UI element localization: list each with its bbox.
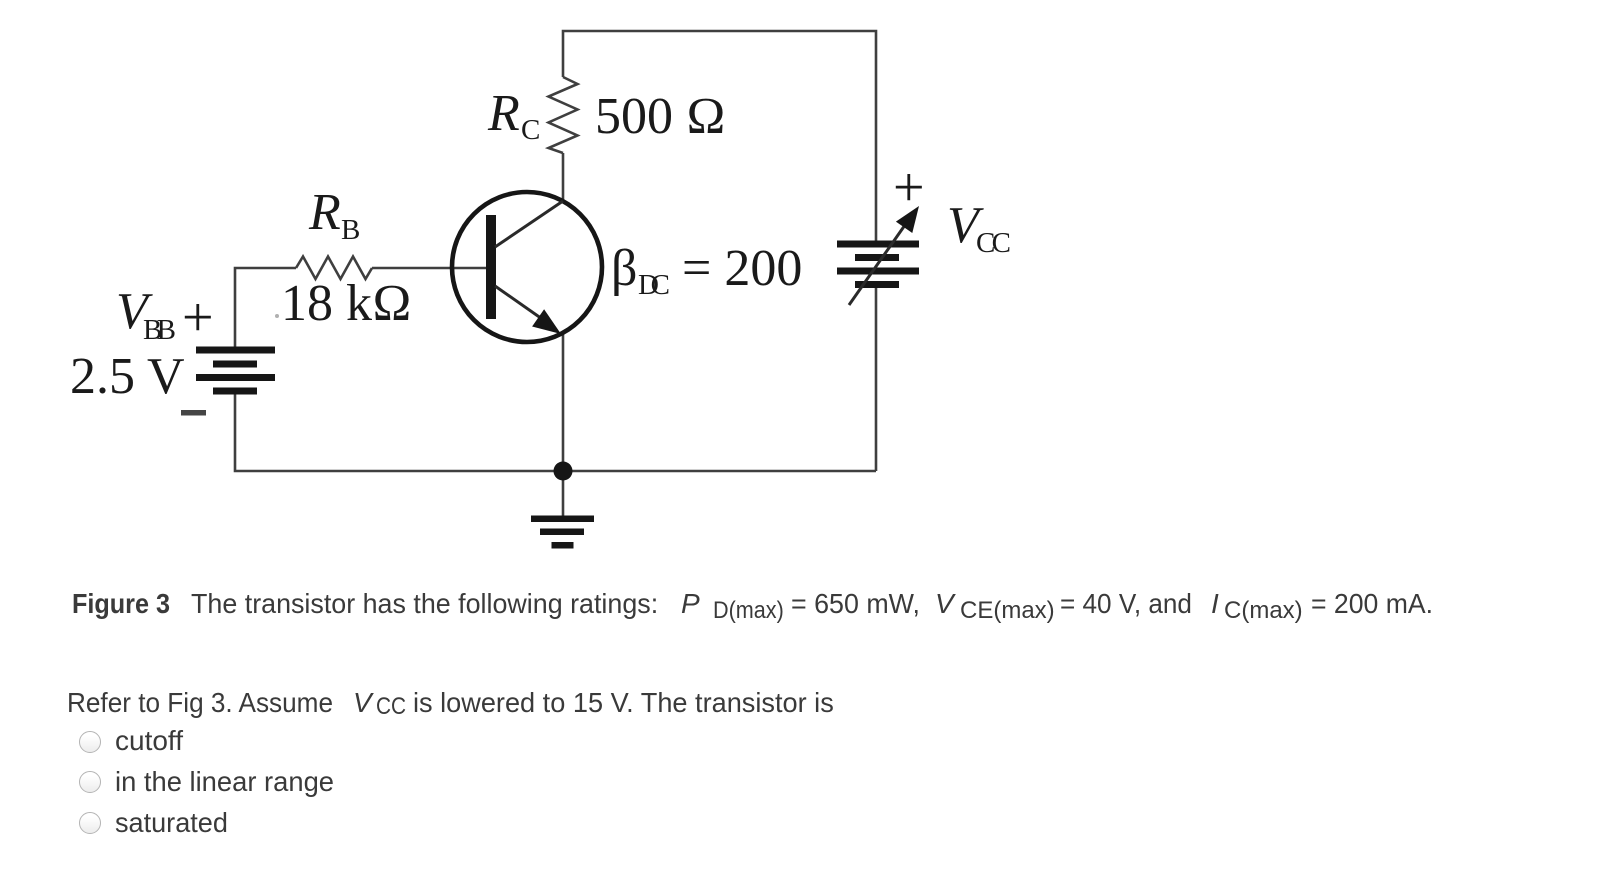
question: CC: [376, 695, 406, 719]
caption: C(max): [1224, 599, 1303, 623]
transistor Q1 circle: [452, 192, 602, 342]
transistor Q1 emitter arrowhead: [532, 309, 561, 334]
wire Rc bottom to collector: [562, 153, 565, 201]
variable arrow line through VCC: [849, 225, 905, 305]
svg-text:R: R: [487, 85, 520, 142]
junction node dot: [554, 462, 573, 481]
variable arrow head: [896, 206, 919, 233]
svg-text:500 Ω: 500 Ω: [595, 88, 726, 145]
svg-text:B: B: [341, 214, 360, 246]
radio option 2: [79, 771, 101, 793]
svg-text:R: R: [308, 184, 341, 241]
resistor R_C zigzag: [549, 77, 578, 153]
battery VBB plates: [196, 347, 275, 354]
caption: = 40 V, and: [1060, 590, 1192, 618]
svg-text:2.5 V: 2.5 V: [70, 348, 185, 405]
transistor Q1 collector line: [495, 201, 563, 247]
circuit schematic: [0, 0, 1616, 575]
svg-text:DC: DC: [638, 269, 670, 301]
ground symbol: [531, 516, 594, 523]
minus sign VBB: [181, 410, 206, 416]
wire RB right to base bar: [372, 267, 490, 270]
caption: D(max): [713, 599, 784, 623]
transistor Q1 emitter line: [495, 286, 545, 321]
question: rest: [413, 689, 834, 717]
caption: CE(max): [960, 599, 1055, 623]
battery VCC plates (variable): [837, 241, 919, 248]
svg-text:BB: BB: [143, 314, 176, 346]
svg-text:+: +: [182, 287, 214, 349]
svg-text:C: C: [521, 114, 540, 146]
svg-text:+: +: [893, 157, 925, 219]
wire bottom rail: [235, 394, 876, 471]
caption: P: [681, 590, 700, 618]
wire top rail: Rc top to Vcc + terminal: [563, 31, 876, 243]
caption: V: [935, 590, 954, 618]
caption: I: [1211, 590, 1219, 618]
wire ground stem: [562, 471, 565, 517]
stray dot before 18: [275, 314, 279, 318]
resistor R_B zigzag: [296, 257, 372, 280]
svg-text:18 kΩ: 18 kΩ: [281, 275, 412, 332]
figure caption: Figure 3: [72, 590, 170, 618]
radio option 3: [79, 812, 101, 834]
wire emitter to bottom rail: [562, 334, 565, 471]
wire VBB + terminal up and right to RB: [235, 268, 296, 347]
caption: = 200 mA.: [1311, 590, 1433, 618]
transistor Q1 base bar: [486, 215, 496, 319]
question: V: [353, 689, 372, 717]
svg-text:= 200: = 200: [682, 240, 802, 297]
caption: main clause: [191, 590, 658, 618]
svg-text:CC: CC: [976, 227, 1011, 259]
question: Refer to Fig 3. Assume: [67, 689, 333, 717]
radio option 1: [79, 731, 101, 753]
caption: = 650 mW,: [791, 590, 920, 618]
svg-text:β: β: [611, 240, 637, 297]
wire Vcc - terminal to bottom rail: [875, 287, 878, 471]
